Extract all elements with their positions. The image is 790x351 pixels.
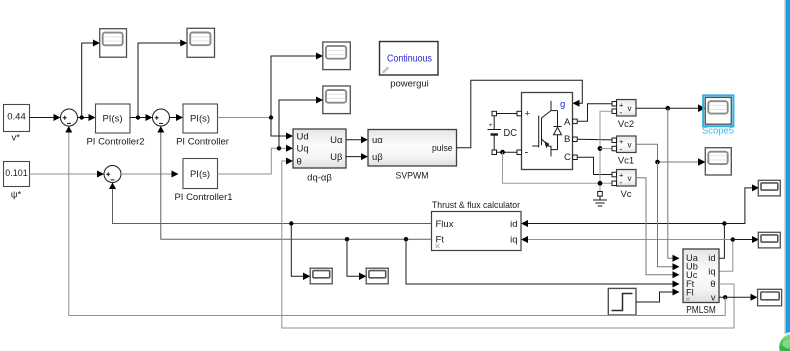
svg-text:pulse: pulse xyxy=(432,143,453,154)
wire PI Controller to dq block Ud with junction and Scope3 branch xyxy=(218,53,324,140)
svg-text:Flux: Flux xyxy=(436,219,454,230)
scope Scope6 xyxy=(705,148,731,175)
svg-text:C: C xyxy=(564,152,571,163)
scope Scope2 xyxy=(187,28,215,57)
block PMLSM xyxy=(683,249,719,303)
svg-text:θ: θ xyxy=(710,279,715,289)
block PI Controller1 xyxy=(183,159,218,189)
svg-text:uα: uα xyxy=(372,135,383,146)
wire PMLSM v output to scope C with junction xyxy=(719,294,758,301)
small scope C bottom right xyxy=(758,289,782,306)
svg-text:v: v xyxy=(628,174,632,183)
svg-text:id: id xyxy=(510,219,517,230)
wire id from PMLSM up to calculator and scope branch xyxy=(521,184,759,258)
svg-text:iq: iq xyxy=(510,235,517,246)
svg-text:A: A xyxy=(564,117,571,128)
svg-text:-: - xyxy=(620,107,623,117)
svg-text:θ: θ xyxy=(297,156,302,167)
wire Ft feedback to sum2 with junctions xyxy=(157,126,431,241)
block voltage measurement Vc2 xyxy=(612,100,636,118)
wire inverter A up to Vc2 plus xyxy=(577,104,612,122)
svg-text:-: - xyxy=(620,177,623,187)
wire Ft branch to small scope E xyxy=(347,239,366,280)
svg-text:PI(s): PI(s) xyxy=(190,114,210,125)
wire Vc2 minus down to ground rail with junctions xyxy=(598,111,612,191)
svg-text:dq-αβ: dq-αβ xyxy=(307,173,332,184)
svg-text:B: B xyxy=(564,134,570,145)
wire sum1 to PI Controller2 with junction xyxy=(78,114,96,121)
scope Scope1 xyxy=(100,29,127,58)
svg-text:0.101: 0.101 xyxy=(5,168,28,178)
svg-text:PI(s): PI(s) xyxy=(190,169,210,180)
svg-text:0.44: 0.44 xyxy=(7,111,26,122)
wire branch to Scope2 xyxy=(138,40,187,118)
svg-text:v: v xyxy=(628,104,632,113)
wire dq Ualpha to SVPWM ualpha xyxy=(346,136,368,143)
wire inverter B to Vc1 plus xyxy=(577,138,612,141)
wire PMLSM theta feedback to dq theta input xyxy=(282,158,734,329)
svg-text:Continuous: Continuous xyxy=(387,54,432,65)
svg-text:Uβ: Uβ xyxy=(330,152,343,163)
wire DC minus rail down and right to Vc minus xyxy=(503,152,613,183)
wire branch to Scope1 xyxy=(82,40,100,118)
sum junction Sum2 xyxy=(153,109,170,126)
scope Scope5 selected xyxy=(703,95,733,126)
sum junction Sum3 xyxy=(104,166,121,183)
svg-text:PMLSM: PMLSM xyxy=(686,305,716,316)
wire inverter C down to Vc plus xyxy=(577,157,612,174)
ground symbol xyxy=(593,192,607,207)
wire Vc2 branch down to PMLSM Ua xyxy=(668,108,680,262)
svg-text:Vc2: Vc2 xyxy=(618,119,634,130)
scope Scope4 xyxy=(323,86,351,114)
green status badge bottom right xyxy=(779,334,790,351)
svg-text:iq: iq xyxy=(708,266,715,276)
wire Vc1 branch down to PMLSM Ub xyxy=(658,162,680,270)
sum junction Sum1 xyxy=(61,109,78,126)
wire Vc2 v output to Scope5 with junction branch to Ua xyxy=(636,104,706,112)
small scope B right column xyxy=(758,232,780,248)
svg-text:Vc: Vc xyxy=(620,189,631,200)
block voltage measurement Vc1 xyxy=(612,136,636,154)
wire flux branch to small scope D xyxy=(291,224,310,281)
svg-text:g: g xyxy=(560,99,565,110)
wire 0.44 to sum1 xyxy=(30,114,61,121)
svg-text:v: v xyxy=(628,141,632,150)
svg-text:SVPWM: SVPWM xyxy=(396,171,429,182)
small scope D xyxy=(310,268,332,284)
svg-text:+: + xyxy=(489,122,493,129)
small scope A right column xyxy=(758,180,780,196)
svg-text:-: - xyxy=(620,144,623,154)
wire SVPWM pulse to inverter g input xyxy=(457,80,583,147)
svg-text:Scope5: Scope5 xyxy=(702,126,734,137)
wire v feedback to sum1 xyxy=(65,126,725,316)
wire PI Controller2 to sum2 with junction xyxy=(130,114,153,121)
svg-text:PI Controller: PI Controller xyxy=(176,137,229,148)
block PI Controller2 xyxy=(96,104,131,133)
svg-text:PI Controller2: PI Controller2 xyxy=(86,137,144,148)
wire DC minus to inverter minus with junction xyxy=(497,150,518,155)
svg-text:ψ*: ψ* xyxy=(11,190,22,201)
scope Scope3 xyxy=(323,42,351,70)
wire step to PMLSM Fl input xyxy=(636,289,680,303)
wire 0.101 to sum3 xyxy=(30,171,105,178)
wire Vc1 v output to scope6 with junction branch to Ub xyxy=(636,144,706,166)
wire Flux feedback to sum3 with scope branch junction xyxy=(109,183,432,226)
svg-text:Uα: Uα xyxy=(330,135,343,146)
wire PI Controller1 to dq block Uq with junction and Scope4 branch xyxy=(218,97,324,175)
svg-text:v: v xyxy=(711,292,716,302)
svg-text:Fl: Fl xyxy=(686,287,694,297)
block dq-alphabeta transform xyxy=(293,129,346,168)
svg-text:Ft: Ft xyxy=(436,235,445,246)
DC voltage source xyxy=(488,111,502,154)
svg-text:Ud: Ud xyxy=(297,131,309,142)
svg-text:powergui: powergui xyxy=(390,79,429,90)
block powergui xyxy=(380,42,439,76)
small scope E xyxy=(366,268,388,284)
svg-text:PI(s): PI(s) xyxy=(102,114,122,125)
constant block v* value 0.44 xyxy=(4,105,30,132)
svg-text:+: + xyxy=(525,109,531,120)
wire DC plus to inverter plus xyxy=(497,113,518,115)
svg-text:-: - xyxy=(525,147,529,159)
inverter port squares xyxy=(517,111,577,159)
inverter internal IGBT symbol xyxy=(532,101,557,157)
svg-text:Thrust & flux calculator: Thrust & flux calculator xyxy=(432,200,520,211)
block voltage measurement Vc xyxy=(612,170,636,188)
svg-text:id: id xyxy=(708,253,715,263)
wire iq from PMLSM up to calculator and scope branch xyxy=(521,236,759,271)
wire sum3 to PI Controller1 xyxy=(121,171,179,178)
inverter internal diode symbol xyxy=(554,111,562,150)
svg-text:DC: DC xyxy=(504,128,518,139)
svg-text:PI Controller1: PI Controller1 xyxy=(174,192,232,203)
wire Ft branch down to PMLSM Ft input xyxy=(406,239,680,287)
block step source xyxy=(608,288,636,315)
block Thrust and flux calculator xyxy=(432,212,522,251)
svg-text:Vc1: Vc1 xyxy=(618,156,634,167)
wire dq Ubeta to SVPWM ubeta xyxy=(346,153,368,160)
right edge window border xyxy=(785,0,790,351)
svg-text:v*: v* xyxy=(11,133,20,144)
wire sum2 to PI Controller xyxy=(170,114,184,121)
svg-text:uβ: uβ xyxy=(372,152,383,163)
block SVPWM xyxy=(368,130,457,167)
svg-text:Uq: Uq xyxy=(297,144,309,155)
wire Vc v output down to PMLSM Uc xyxy=(636,178,680,279)
constant block psi* value 0.101 xyxy=(4,162,30,187)
block PI Controller xyxy=(183,104,218,133)
block universal bridge inverter xyxy=(522,93,573,170)
